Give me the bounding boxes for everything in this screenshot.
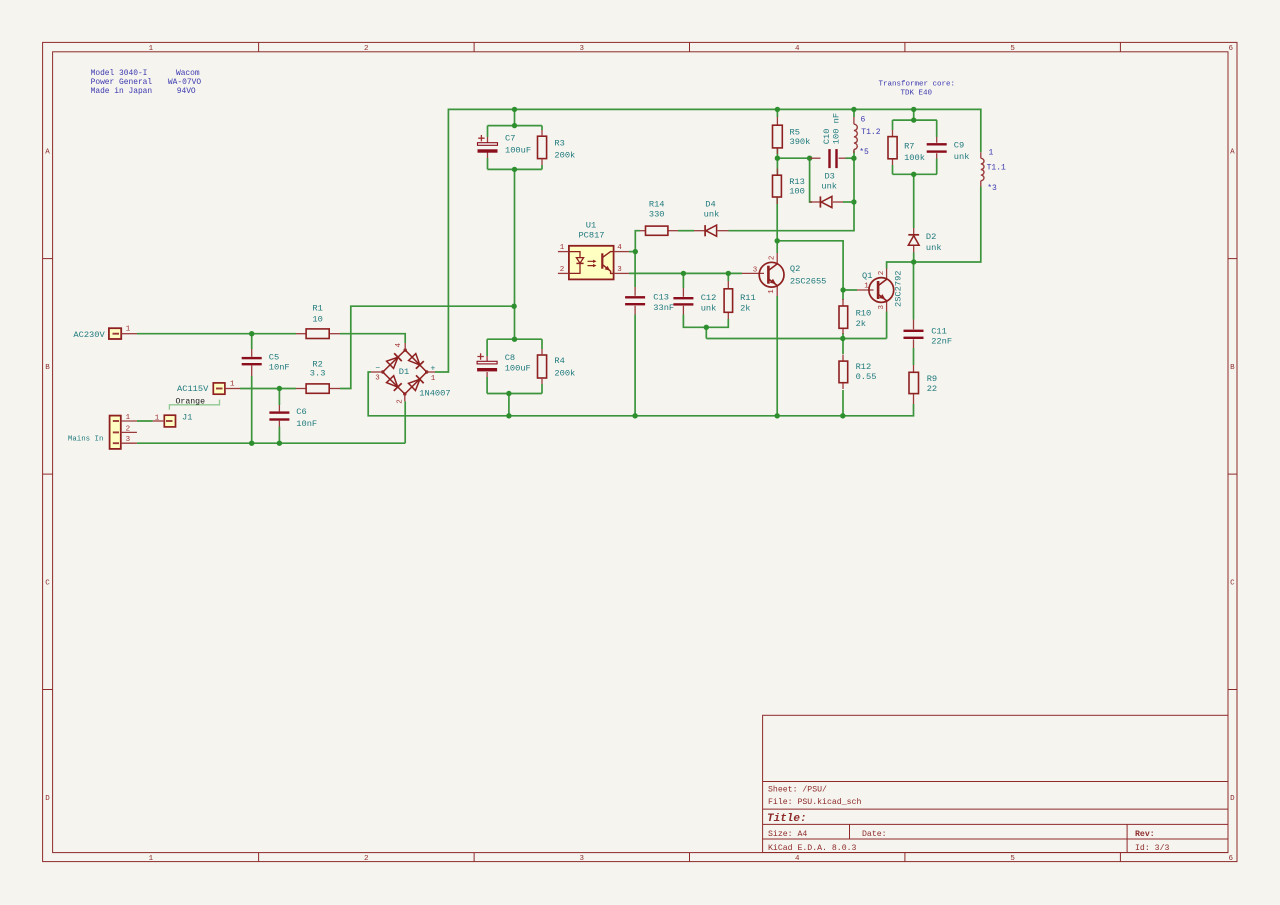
- resistor R13: [776, 169, 778, 176]
- svg-text:4: 4: [795, 855, 800, 863]
- resistor R1: [296, 333, 306, 335]
- wire D4 to Q2 collector node: [729, 202, 855, 231]
- svg-text:Mains In: Mains In: [68, 436, 103, 444]
- svg-text:1: 1: [431, 375, 436, 383]
- svg-text:1: 1: [126, 326, 131, 334]
- svg-text:3: 3: [375, 375, 380, 383]
- wire R12 leads: [842, 339, 844, 355]
- capacitor C9: [936, 137, 938, 143]
- wire C8 block to ground rail: [508, 394, 510, 416]
- connector Mains In: [110, 416, 121, 449]
- wire R1 to bridge top: [340, 334, 405, 343]
- svg-text:B: B: [1230, 364, 1235, 372]
- U1 internal LED: [569, 252, 580, 274]
- svg-text:100 nF: 100 nF: [832, 113, 842, 144]
- wire D3 right to node: [843, 201, 854, 203]
- svg-text:1: 1: [126, 414, 131, 422]
- capacitor C10: [810, 157, 821, 159]
- svg-text:4: 4: [395, 342, 403, 347]
- svg-text:Made in Japan: Made in Japan: [91, 87, 153, 96]
- svg-text:C13: C13: [653, 293, 669, 303]
- wire R7-C9 block bottom rail: [893, 173, 937, 175]
- svg-text:File: PSU.kicad_sch: File: PSU.kicad_sch: [768, 797, 861, 807]
- wire C7 block top rail: [488, 125, 542, 127]
- svg-text:T1.2: T1.2: [861, 128, 880, 137]
- title block outline: [763, 715, 1228, 852]
- U1 coupling arrows: [588, 261, 595, 265]
- U1 internal phototransistor: [601, 253, 603, 268]
- resistor R12: [842, 355, 844, 362]
- wire C6 bottom to rail: [278, 427, 280, 444]
- svg-text:A: A: [1230, 149, 1235, 157]
- wire C7 top lead: [487, 126, 489, 137]
- svg-text:Title:: Title:: [767, 813, 807, 825]
- svg-text:5: 5: [1010, 855, 1015, 863]
- svg-text:C8: C8: [505, 353, 515, 363]
- svg-text:*5: *5: [859, 148, 869, 157]
- svg-text:R13: R13: [789, 177, 805, 187]
- svg-text:AC115V: AC115V: [177, 384, 209, 394]
- wire Q2 emitter to ground rail: [776, 296, 778, 416]
- capacitor C12: [682, 288, 684, 297]
- svg-text:A: A: [45, 149, 50, 157]
- svg-text:R3: R3: [554, 139, 564, 149]
- svg-text:6: 6: [1229, 855, 1234, 863]
- wire R7-C9 block feed: [913, 109, 915, 120]
- wire AC230V to R1: [137, 333, 296, 335]
- svg-text:100k: 100k: [904, 153, 925, 163]
- transistor Q2 2SC2655: [742, 272, 764, 274]
- svg-text:C12: C12: [701, 293, 717, 303]
- svg-text:D4: D4: [705, 200, 715, 210]
- svg-text:R14: R14: [649, 200, 665, 210]
- svg-text:330: 330: [649, 209, 665, 219]
- svg-text:Q2: Q2: [790, 264, 800, 274]
- svg-text:3: 3: [878, 304, 886, 309]
- svg-text:C11: C11: [931, 327, 947, 337]
- svg-text:Q1: Q1: [862, 271, 872, 281]
- wire C10 left node down to D3: [810, 158, 812, 202]
- svg-text:unk: unk: [821, 182, 837, 192]
- svg-text:1: 1: [149, 855, 154, 863]
- svg-text:3.3: 3.3: [310, 368, 326, 378]
- svg-text:6: 6: [1229, 45, 1234, 53]
- svg-text:4: 4: [795, 45, 800, 53]
- wire R7 leads: [892, 120, 894, 130]
- wire bridge plus up and top rail: [435, 109, 981, 372]
- svg-text:1: 1: [155, 414, 160, 422]
- U1 pin 1: [558, 251, 569, 253]
- wire R14 to D4: [678, 230, 694, 232]
- svg-text:3: 3: [753, 266, 758, 274]
- svg-text:1: 1: [149, 45, 154, 53]
- svg-text:R4: R4: [554, 356, 564, 366]
- connector AC230V: [109, 328, 121, 339]
- capacitor C5: [251, 349, 253, 357]
- svg-text:Date:: Date:: [862, 830, 887, 839]
- wire C7 bottom lead: [487, 158, 489, 169]
- svg-text:R9: R9: [927, 374, 937, 384]
- wire T1.1 bottom to Q1 collector: [887, 187, 981, 269]
- svg-text:100: 100: [789, 187, 805, 197]
- svg-text:4: 4: [617, 244, 622, 252]
- resistor R5: [776, 117, 778, 125]
- svg-text:10: 10: [312, 315, 322, 325]
- wire C12 top lead: [682, 273, 684, 288]
- wire emitter line to R10 node: [706, 338, 886, 340]
- svg-text:2: 2: [878, 271, 886, 276]
- capacitor C7 (polarized): [487, 137, 489, 143]
- wire R4 leads: [541, 339, 543, 349]
- svg-text:1N4007: 1N4007: [419, 389, 450, 399]
- svg-text:Size: A4: Size: A4: [768, 829, 807, 839]
- svg-text:3: 3: [617, 266, 622, 274]
- svg-text:3: 3: [580, 45, 585, 53]
- wire C13 bottom to ground rail: [634, 315, 636, 416]
- resistor R14: [640, 230, 646, 232]
- title block row lines: [763, 781, 1228, 783]
- wire R10 leads: [842, 290, 844, 300]
- svg-text:2SC2655: 2SC2655: [790, 276, 827, 286]
- svg-text:94VO: 94VO: [177, 87, 196, 96]
- svg-text:C: C: [1230, 580, 1235, 588]
- wire C11 top lead: [913, 262, 915, 320]
- svg-text:100uF: 100uF: [505, 364, 531, 374]
- frame column ticks bottom: [258, 853, 260, 862]
- wire C12 bottom: [683, 315, 728, 328]
- svg-text:2k: 2k: [856, 319, 866, 329]
- frame row ticks left: [43, 258, 53, 260]
- svg-text:Model 3040-I: Model 3040-I: [91, 69, 148, 78]
- wire C12-R11 node down to emitter line: [705, 327, 707, 338]
- svg-text:D: D: [1230, 795, 1235, 803]
- svg-text:6: 6: [861, 116, 866, 125]
- wire C8 top lead: [486, 339, 488, 356]
- diode D4: [694, 230, 705, 232]
- svg-text:−: −: [375, 364, 380, 373]
- svg-text:390k: 390k: [790, 137, 811, 147]
- svg-text:WA-07VO: WA-07VO: [168, 78, 201, 87]
- svg-text:2: 2: [769, 256, 777, 261]
- svg-text:R1: R1: [312, 303, 322, 313]
- capacitor C8 (polarized): [486, 356, 488, 361]
- wire R13 to Q2 collector: [776, 197, 778, 253]
- transformer winding T1.1: [981, 158, 984, 180]
- svg-text:Id: 3/3: Id: 3/3: [1135, 843, 1169, 853]
- transistor Q1 2SC2792: [857, 289, 874, 291]
- svg-text:AC230V: AC230V: [73, 330, 105, 340]
- junction dots: [249, 331, 254, 336]
- wire C6 top lead: [278, 389, 280, 406]
- optocoupler U1 PC817: [569, 246, 614, 280]
- wire Q1 emitter down-left: [886, 312, 888, 339]
- svg-text:2: 2: [126, 425, 131, 433]
- diode D3: [810, 201, 821, 203]
- svg-text:100uF: 100uF: [505, 146, 531, 156]
- svg-text:3: 3: [580, 855, 585, 863]
- wire D2 to Q1 collector node: [913, 253, 915, 263]
- svg-text:10nF: 10nF: [296, 419, 317, 429]
- frame row ticks right: [1228, 258, 1237, 260]
- wire C8 block bottom rail: [487, 393, 542, 395]
- wire C13 top connection: [634, 252, 636, 287]
- svg-text:Wacom: Wacom: [176, 69, 200, 78]
- resistor R10: [842, 299, 844, 306]
- svg-text:C10: C10: [822, 129, 832, 145]
- svg-text:D1: D1: [399, 367, 409, 377]
- svg-text:3: 3: [126, 436, 131, 444]
- frame column ticks top: [258, 42, 260, 51]
- resistor R3: [538, 136, 547, 158]
- wire U1 pin3 bus: [629, 272, 742, 274]
- svg-text:J1: J1: [182, 413, 192, 423]
- wire C11 to R9: [913, 348, 915, 365]
- wire Q2 collector node to Q1 base: [777, 241, 857, 290]
- svg-text:R11: R11: [740, 293, 756, 303]
- svg-text:10nF: 10nF: [269, 363, 290, 373]
- svg-text:R10: R10: [856, 308, 872, 318]
- svg-text:*3: *3: [987, 184, 997, 193]
- resistor R2: [296, 388, 306, 390]
- wire R3 leads: [541, 126, 543, 130]
- svg-text:D3: D3: [824, 171, 834, 181]
- svg-text:Rev:: Rev:: [1135, 830, 1155, 839]
- U1 pin 3: [614, 272, 629, 274]
- svg-text:KiCad E.D.A. 8.0.3: KiCad E.D.A. 8.0.3: [768, 843, 857, 853]
- svg-text:22: 22: [927, 384, 937, 394]
- wire C5 top lead: [251, 334, 253, 349]
- wire bridge minus down to ground rail: [368, 372, 913, 416]
- connector AC115V: [213, 383, 225, 394]
- bridge rectifier D1 1N4007: [383, 350, 427, 394]
- wire C8 block top rail: [487, 338, 542, 340]
- wire R2 up to C7-C8 node: [340, 306, 514, 388]
- svg-text:Orange: Orange: [176, 397, 206, 406]
- bridge pin stubs: [371, 371, 383, 373]
- svg-text:22nF: 22nF: [931, 337, 952, 347]
- svg-text:D: D: [45, 795, 50, 803]
- wire C8 bottom lead: [486, 377, 488, 394]
- wire R7-C9 block top rail: [893, 119, 937, 121]
- svg-text:C7: C7: [505, 134, 515, 144]
- svg-text:1: 1: [230, 380, 235, 388]
- svg-text:Sheet: /PSU/: Sheet: /PSU/: [768, 785, 827, 795]
- svg-text:D2: D2: [926, 232, 936, 242]
- svg-text:T1.1: T1.1: [987, 163, 1006, 172]
- svg-text:2k: 2k: [740, 304, 750, 314]
- wire R11 top lead: [727, 273, 729, 281]
- wire AC115V to R2: [240, 388, 296, 390]
- wire rail up to bridge bottom: [404, 401, 406, 443]
- svg-text:Transformer core:: Transformer core:: [878, 81, 955, 89]
- svg-text:C: C: [45, 580, 50, 588]
- wire block to D2: [913, 174, 915, 228]
- resistor R11: [727, 281, 729, 289]
- U1 pin 4: [614, 251, 629, 253]
- svg-text:2: 2: [364, 45, 369, 53]
- svg-text:33nF: 33nF: [653, 303, 674, 313]
- svg-text:R12: R12: [856, 362, 872, 372]
- svg-text:2: 2: [560, 266, 565, 274]
- svg-text:C5: C5: [269, 353, 279, 363]
- wire mains pin1 to J1: [137, 420, 153, 422]
- resistor R4: [538, 355, 547, 378]
- svg-text:PC817: PC817: [578, 231, 604, 241]
- svg-text:C6: C6: [296, 407, 306, 417]
- svg-text:0.55: 0.55: [856, 372, 877, 382]
- svg-text:2: 2: [396, 399, 404, 404]
- svg-text:unk: unk: [926, 243, 942, 253]
- wire U1 pin4 to R14: [629, 251, 635, 253]
- svg-text:B: B: [45, 364, 50, 372]
- svg-text:1: 1: [864, 283, 869, 291]
- wire T1.2 bottom node: [853, 151, 855, 159]
- svg-text:1: 1: [768, 289, 776, 294]
- wire R5 top lead: [776, 109, 778, 117]
- wire C7 block bottom rail: [488, 168, 542, 170]
- resistor R9: [913, 365, 915, 372]
- transformer winding T1.2: [854, 124, 857, 149]
- svg-text:200k: 200k: [554, 369, 575, 379]
- svg-text:U1: U1: [586, 220, 596, 230]
- wire C9 leads: [936, 120, 938, 137]
- wire R5-R13 node to C10: [777, 157, 809, 159]
- diode D2: [913, 228, 915, 235]
- capacitor C13: [634, 287, 636, 296]
- svg-text:unk: unk: [704, 209, 720, 219]
- svg-text:200k: 200k: [554, 151, 575, 161]
- svg-text:Power General: Power General: [91, 78, 153, 87]
- svg-text:unk: unk: [954, 152, 970, 162]
- svg-text:5: 5: [1010, 45, 1015, 53]
- capacitor C6: [278, 405, 280, 411]
- wire D3 node up to C10 node: [853, 158, 855, 202]
- connector J1: [164, 415, 175, 427]
- net label Orange leader: [169, 400, 219, 410]
- svg-text:unk: unk: [701, 304, 717, 314]
- title block column dividers: [849, 824, 851, 839]
- svg-text:2: 2: [364, 855, 369, 863]
- wire C10 right lead: [846, 157, 855, 159]
- wire T1.2 top lead: [853, 109, 855, 117]
- svg-text:+: +: [430, 364, 435, 373]
- wire mains bottom rail: [137, 442, 405, 444]
- U1 pin 2: [558, 272, 569, 274]
- svg-text:TDK E40: TDK E40: [900, 89, 932, 97]
- svg-text:1: 1: [560, 244, 565, 252]
- svg-text:R7: R7: [904, 141, 914, 151]
- svg-text:C9: C9: [954, 141, 964, 151]
- wire C7 block to C8 block: [514, 169, 516, 339]
- capacitor C11: [913, 320, 915, 330]
- resistor R7: [892, 130, 894, 137]
- svg-text:1: 1: [989, 148, 994, 157]
- wire R5 to R13 node: [776, 148, 778, 175]
- wire C7 block top: [514, 109, 516, 125]
- wire C5 bottom to rail: [251, 376, 253, 443]
- svg-text:2SC2792: 2SC2792: [894, 271, 904, 308]
